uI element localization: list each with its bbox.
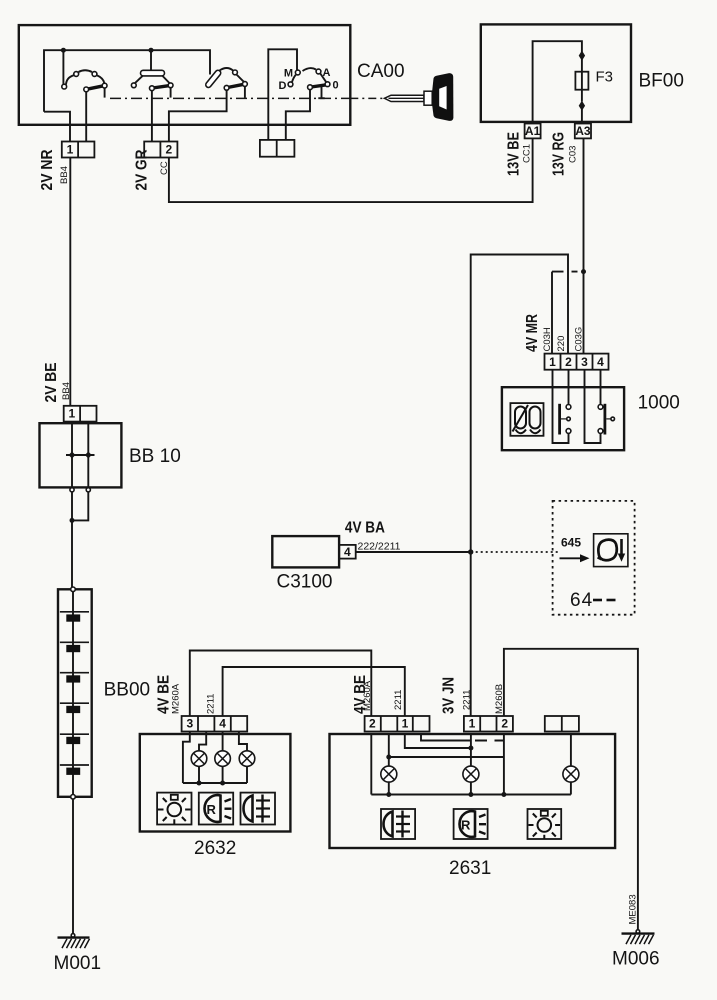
svg-text:M001: M001 (54, 953, 102, 974)
svg-text:2632: 2632 (194, 838, 236, 859)
svg-text:2: 2 (501, 717, 508, 731)
svg-text:M260A: M260A (171, 683, 182, 714)
svg-text:BB4: BB4 (61, 382, 72, 400)
svg-text:2V NR: 2V NR (39, 150, 56, 191)
svg-text:R: R (461, 818, 471, 833)
svg-text:1000: 1000 (638, 393, 680, 414)
svg-text:13V BE: 13V BE (506, 132, 523, 176)
svg-text:1: 1 (69, 407, 76, 421)
svg-text:M260B: M260B (494, 684, 505, 714)
svg-text:2631: 2631 (449, 858, 491, 879)
svg-text:4: 4 (597, 355, 604, 369)
svg-text:BB00: BB00 (104, 680, 150, 701)
svg-text:BF00: BF00 (639, 71, 684, 92)
svg-text:BB 10: BB 10 (129, 446, 181, 467)
svg-text:2V GR: 2V GR (134, 150, 151, 191)
svg-text:CA00: CA00 (357, 61, 405, 82)
svg-text:C03G: C03G (574, 327, 585, 352)
svg-text:1: 1 (469, 717, 476, 731)
svg-text:1: 1 (402, 717, 409, 731)
svg-text:ME083: ME083 (628, 894, 639, 924)
svg-text:C3100: C3100 (277, 572, 333, 593)
svg-text:M006: M006 (612, 949, 660, 970)
svg-text:13V RG: 13V RG (551, 132, 568, 176)
svg-text:2: 2 (369, 717, 376, 731)
svg-text:645: 645 (561, 536, 581, 550)
svg-text:M: M (284, 68, 293, 80)
svg-text:R: R (207, 802, 217, 817)
svg-text:2211: 2211 (206, 694, 217, 714)
svg-text:2211: 2211 (393, 690, 404, 710)
svg-text:4V BA: 4V BA (345, 520, 385, 537)
svg-text:4V MR: 4V MR (524, 314, 541, 352)
svg-text:3: 3 (581, 355, 588, 369)
svg-text:4: 4 (219, 717, 226, 731)
svg-text:220: 220 (556, 336, 567, 352)
svg-text:222/2211: 222/2211 (358, 541, 401, 553)
svg-text:2: 2 (165, 143, 172, 157)
svg-text:1: 1 (549, 355, 556, 369)
svg-text:64: 64 (570, 590, 593, 611)
svg-text:2: 2 (565, 355, 572, 369)
svg-text:F3: F3 (596, 69, 614, 86)
svg-text:A: A (323, 67, 331, 79)
svg-text:0: 0 (333, 79, 339, 91)
svg-text:A1: A1 (525, 124, 541, 138)
svg-text:D: D (279, 80, 287, 92)
svg-text:CC1: CC1 (522, 144, 533, 163)
svg-text:A3: A3 (575, 124, 591, 138)
svg-text:2211: 2211 (462, 690, 473, 710)
svg-text:3V JN: 3V JN (441, 677, 458, 714)
svg-text:C03H: C03H (542, 327, 553, 351)
svg-text:1: 1 (67, 143, 74, 157)
svg-text:BB4: BB4 (59, 166, 70, 184)
svg-text:2V BE: 2V BE (43, 363, 60, 403)
svg-text:C03: C03 (568, 146, 579, 163)
svg-text:4: 4 (344, 545, 351, 559)
svg-text:M260A: M260A (362, 680, 373, 711)
svg-text:3: 3 (186, 717, 193, 731)
